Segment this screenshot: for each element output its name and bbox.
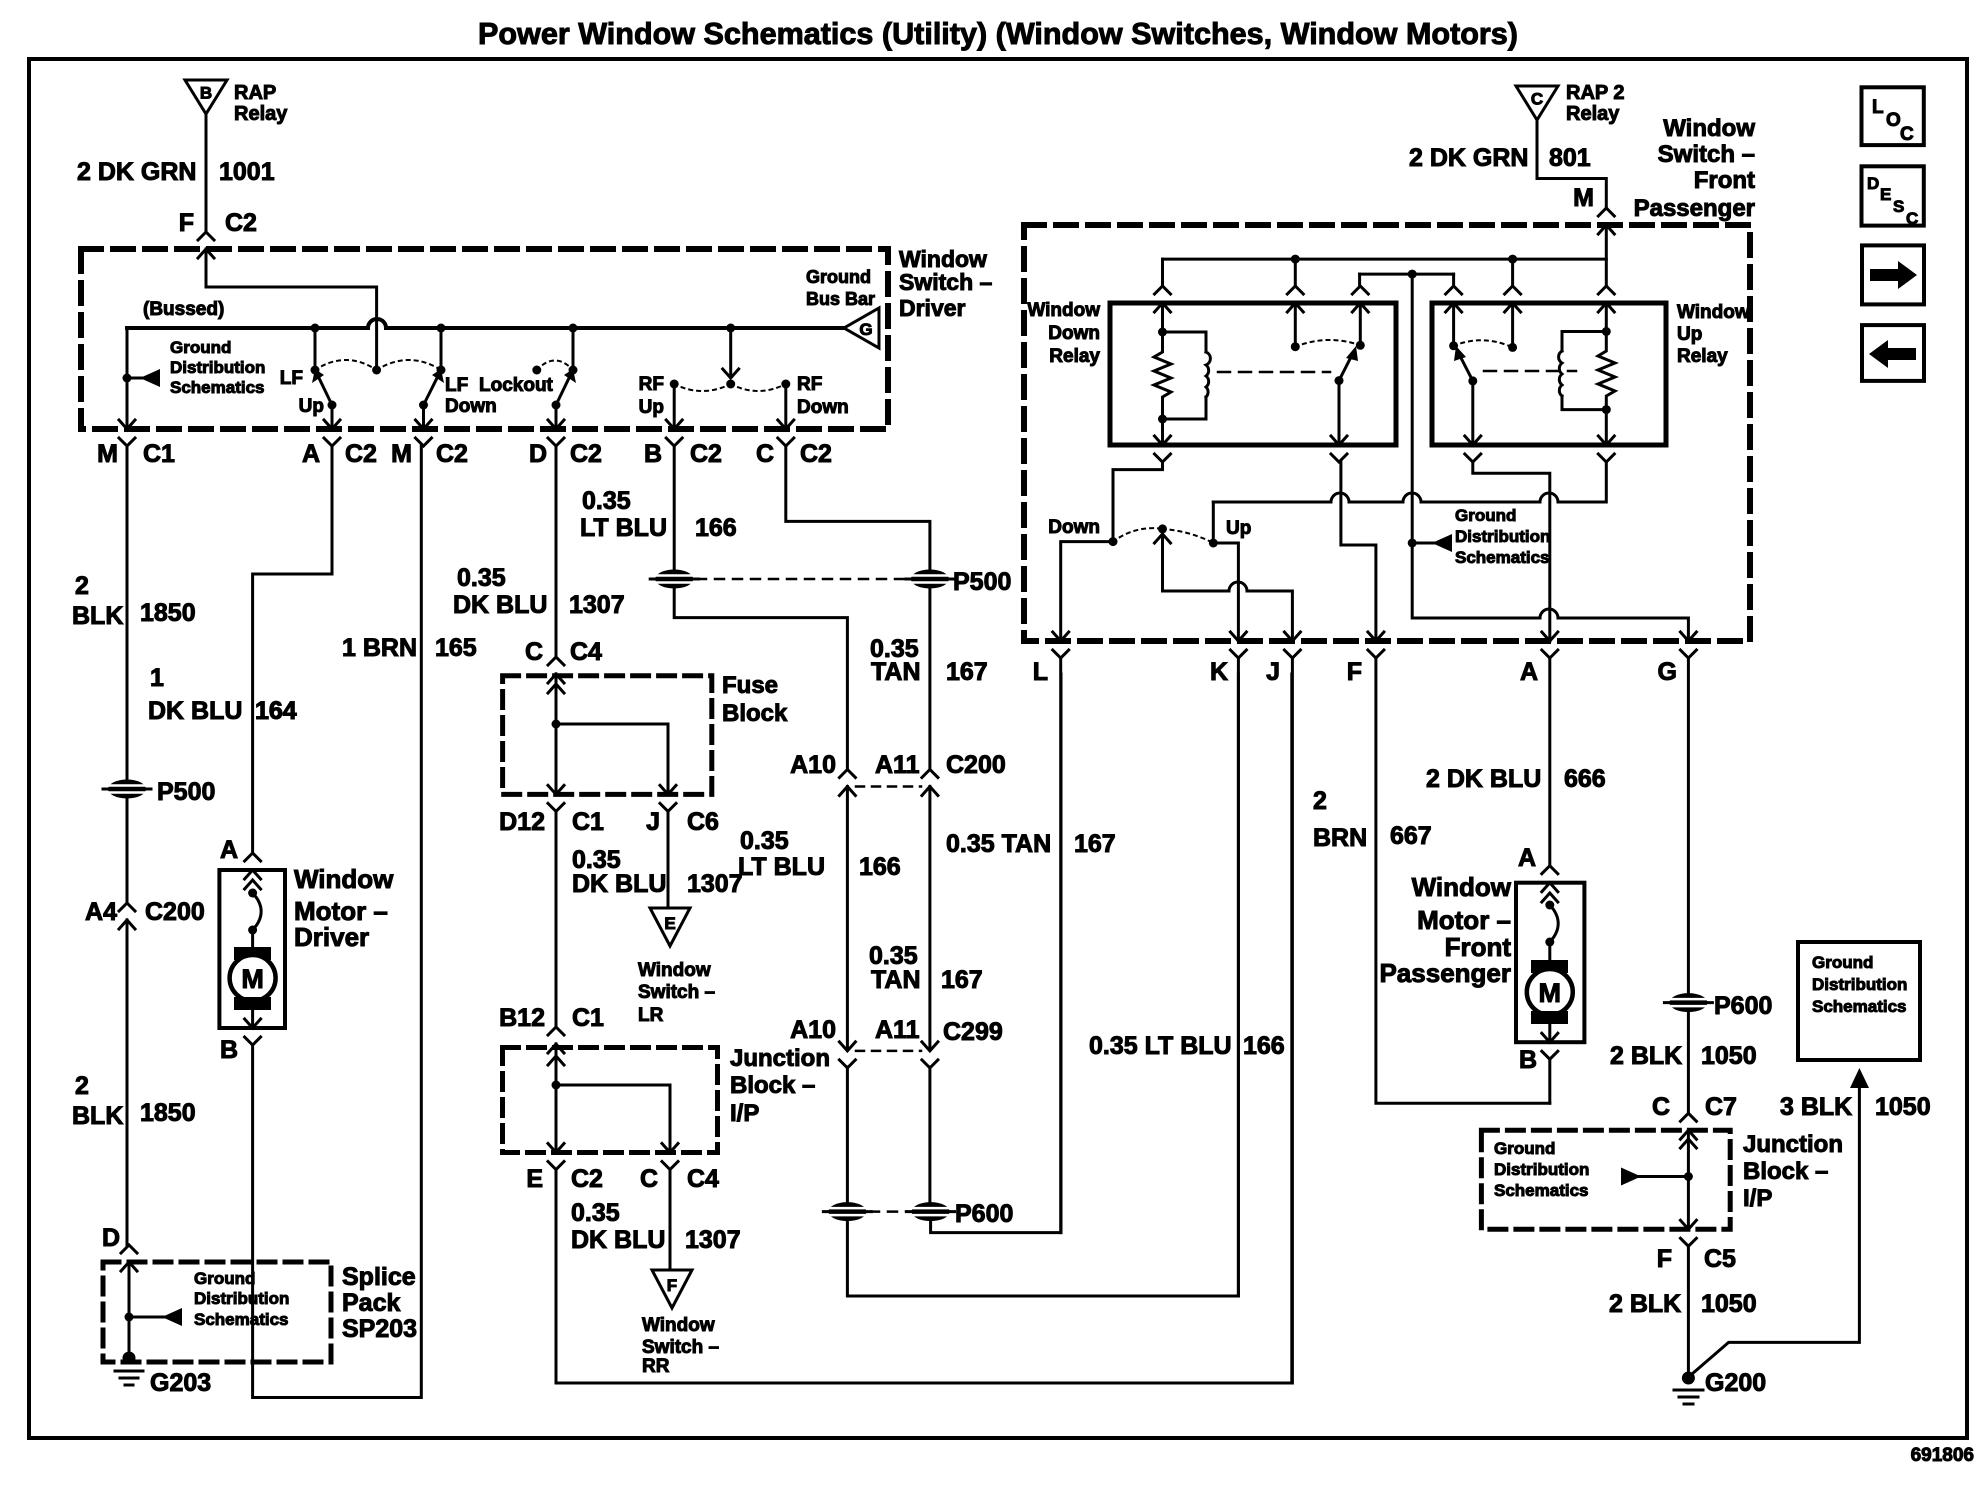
svg-text:2 DK BLU: 2 DK BLU <box>1426 765 1541 793</box>
svg-text:I/P: I/P <box>1743 1185 1772 1212</box>
wire C C2 to P500 right <box>786 446 930 569</box>
connector A11 C299 <box>922 1042 938 1068</box>
contact dot switch NO (up relay) <box>1449 341 1458 350</box>
window up relay box <box>1432 303 1666 445</box>
svg-text:167: 167 <box>946 658 988 686</box>
svg-text:LT BLU: LT BLU <box>738 853 825 881</box>
wire LF up riser <box>314 328 317 366</box>
pass-through grommet P600 (G wire) <box>1664 993 1712 1012</box>
svg-text:M: M <box>241 964 264 994</box>
connector K <box>1230 632 1246 658</box>
connector down relay coil <box>1155 286 1171 312</box>
ground symbol G200 <box>1674 1390 1703 1404</box>
svg-text:A: A <box>1520 658 1538 686</box>
connector up relay switch common <box>1505 286 1521 312</box>
ground bus bar triangle G <box>844 308 879 348</box>
wire GDS arrow stub (passenger) <box>1412 542 1436 545</box>
svg-text:Lockout: Lockout <box>479 375 554 396</box>
svg-text:C4: C4 <box>687 1165 719 1193</box>
wire to motor brush (passenger) <box>1548 942 1551 960</box>
pass-through grommet P600 (left) <box>823 1202 871 1221</box>
junction dot coil top (down relay) <box>1158 328 1167 337</box>
svg-text:LF: LF <box>445 375 468 396</box>
svg-text:Schematics: Schematics <box>1812 997 1907 1016</box>
connector B at driver motor <box>245 1019 261 1045</box>
arrowhead motor passenger top <box>1542 893 1558 902</box>
pivot dot LF down lower <box>419 401 428 410</box>
wire up relay switch to A exit <box>1473 462 1550 641</box>
connector E C2 at junction block <box>548 1144 564 1170</box>
svg-text:691806: 691806 <box>1911 1445 1974 1466</box>
svg-text:Schematics: Schematics <box>194 1310 289 1329</box>
ground dot G203 <box>123 1352 136 1365</box>
svg-text:O: O <box>1886 110 1901 131</box>
svg-text:C2: C2 <box>571 1165 603 1193</box>
svg-text:801: 801 <box>1549 144 1591 172</box>
svg-text:166: 166 <box>1243 1032 1285 1060</box>
svg-text:Schematics: Schematics <box>1494 1181 1589 1200</box>
bus bar wire with hop over center riser <box>127 319 844 328</box>
connector C C2 at driver box <box>778 420 794 446</box>
pivot dot LF up lower <box>328 401 337 410</box>
connector down relay switch NO <box>1352 286 1368 312</box>
wire RAP relay B to connector F C2 <box>205 114 208 232</box>
svg-text:C: C <box>1652 1093 1670 1121</box>
svg-text:J: J <box>1266 658 1280 686</box>
connector M C2 at driver box <box>416 420 432 446</box>
arrowhead 3 BLK to GDS box <box>1850 1068 1869 1088</box>
connector down relay switch common <box>1287 286 1303 312</box>
arrowhead junction right entry <box>1680 1139 1696 1148</box>
svg-text:1850: 1850 <box>140 599 196 627</box>
svg-text:2 DK GRN: 2 DK GRN <box>1409 144 1528 172</box>
svg-text:165: 165 <box>435 634 477 662</box>
svg-text:G203: G203 <box>150 1369 211 1397</box>
connector C C7 <box>1680 1113 1696 1139</box>
svg-text:D12: D12 <box>499 808 545 836</box>
junction dot LF riser on bus <box>311 324 320 333</box>
motor passenger symbol M circle <box>1527 969 1573 1015</box>
wire Up contact riser to coil rail <box>1212 502 1215 543</box>
resistor element up relay <box>1598 332 1615 410</box>
svg-text:C6: C6 <box>687 808 719 836</box>
junction dot rail upper right <box>1508 255 1517 264</box>
wire Up contact to K exit <box>1213 543 1238 641</box>
svg-text:2 DK GRN: 2 DK GRN <box>77 158 196 186</box>
arrowhead motor driver top <box>245 880 261 889</box>
svg-text:P500: P500 <box>953 568 1011 596</box>
pass-through grommet P600 (right) <box>907 1202 955 1221</box>
svg-text:Down: Down <box>1048 517 1100 538</box>
junction dot coil bottom (up relay) <box>1602 405 1611 414</box>
dashed link P600 <box>870 1210 908 1213</box>
contact dot LF up <box>311 366 320 375</box>
svg-text:Window: Window <box>1027 300 1100 321</box>
wire A11 down to C299 <box>928 787 931 1051</box>
svg-text:SP203: SP203 <box>342 1315 417 1343</box>
svg-text:1307: 1307 <box>569 591 625 619</box>
svg-text:C: C <box>640 1165 658 1193</box>
svg-text:BRN: BRN <box>1313 824 1367 852</box>
wire M C1 down to P500 <box>126 446 129 779</box>
forward arrow icon <box>1870 261 1917 289</box>
wire A C2 jog to motor column <box>253 446 332 853</box>
svg-text:M: M <box>1539 978 1562 1008</box>
wire E C2 bottom run to J <box>556 674 1292 1383</box>
dotted arc RF center to down <box>731 384 786 391</box>
svg-text:1050: 1050 <box>1701 1290 1757 1318</box>
contact dot lockout <box>569 366 578 375</box>
connector up relay switch NO <box>1446 286 1462 312</box>
wire coil riser down relay <box>1161 303 1164 332</box>
svg-text:Window: Window <box>294 864 394 894</box>
junction dot coil bottom (down relay) <box>1158 415 1167 424</box>
svg-text:RAP 2: RAP 2 <box>1566 82 1625 104</box>
svg-text:Schematics: Schematics <box>1455 548 1550 567</box>
svg-text:Schematics: Schematics <box>170 378 265 397</box>
pass-through grommet P500 (right pair left) <box>650 570 698 589</box>
pass-through grommet P500 (right pair right) <box>906 570 954 589</box>
wire splice to GDS arrow <box>129 1316 178 1319</box>
arrowhead LF down blade <box>432 369 444 383</box>
connector down relay coil out <box>1155 436 1171 462</box>
wire inside junction block <box>555 1044 558 1152</box>
ground dot G200 <box>1682 1372 1695 1385</box>
svg-text:Bus Bar: Bus Bar <box>806 289 875 309</box>
relay reference triangle C (RAP 2 Relay) <box>1516 86 1558 120</box>
wire inside junction right <box>1687 1130 1690 1229</box>
svg-text:0.35: 0.35 <box>457 564 506 592</box>
junction dot RF riser on bus <box>726 324 735 333</box>
switch blade LF down <box>424 378 438 405</box>
svg-text:LT BLU: LT BLU <box>580 514 667 542</box>
ground distribution schematics solid box <box>1798 942 1920 1060</box>
contact dot switch common (up relay) <box>1508 343 1517 352</box>
wire feed rail upper <box>1163 258 1607 261</box>
relay reference triangle B (RAP Relay) <box>185 80 227 114</box>
arrow ground distribution schematics (driver box) <box>140 369 160 387</box>
brush dot motor passenger top <box>1545 901 1554 910</box>
svg-text:RF: RF <box>639 374 664 395</box>
wire switch NO riser (down relay) <box>1359 303 1362 341</box>
svg-text:DK BLU: DK BLU <box>572 870 666 898</box>
junction dot fuse block <box>552 720 561 729</box>
svg-text:Ground: Ground <box>194 1269 255 1288</box>
wire L down to P600 corner <box>1059 658 1062 1233</box>
svg-text:166: 166 <box>859 853 901 881</box>
wire RF center riser <box>729 328 732 374</box>
wire C C4 to switch RR <box>669 1169 672 1270</box>
connector F (passenger) <box>1368 632 1384 658</box>
wire from F C2 down and over to bus hop <box>206 249 377 320</box>
connector G (passenger) <box>1680 632 1696 658</box>
motor driver symbol M circle <box>230 955 276 1001</box>
junction block IP dashed box (center) <box>503 1048 718 1153</box>
wire RF down to edge <box>784 384 787 428</box>
connector D12 C1 at fuse block <box>548 785 564 811</box>
relay reference triangle E (Window Switch LR) <box>650 908 690 946</box>
connector A at driver motor <box>245 853 261 879</box>
wire up relay coil rail <box>1213 462 1606 502</box>
svg-text:RAP: RAP <box>234 82 276 104</box>
svg-text:D: D <box>1867 174 1879 193</box>
connector M at passenger box <box>1598 208 1614 234</box>
wire coil bottom to box edge (up relay) <box>1605 410 1608 445</box>
svg-text:0.35 LT BLU: 0.35 LT BLU <box>1089 1032 1232 1060</box>
arrow ground distribution schematics (splice pack) <box>162 1308 182 1326</box>
junction block IP dashed box (right) <box>1481 1130 1730 1229</box>
forward arrow icon box <box>1862 245 1924 304</box>
dotted arc down relay contacts <box>1295 340 1360 347</box>
wire Down contact to L exit <box>1061 542 1113 641</box>
window motor driver box <box>219 870 285 1028</box>
relay reference triangle F (Window Switch RR) <box>652 1270 692 1308</box>
dashed link P500 <box>697 578 908 581</box>
svg-text:C2: C2 <box>800 440 832 468</box>
connector L <box>1053 632 1069 658</box>
svg-text:B12: B12 <box>499 1004 545 1032</box>
svg-text:1001: 1001 <box>219 158 275 186</box>
connector C C4 at fuse block <box>548 657 564 683</box>
svg-text:1: 1 <box>150 664 164 692</box>
svg-text:2: 2 <box>75 1072 89 1100</box>
pivot dot lockout lower <box>552 401 561 410</box>
svg-text:Up: Up <box>639 397 664 418</box>
svg-text:Down: Down <box>1048 323 1100 344</box>
svg-text:L: L <box>1033 658 1048 686</box>
svg-text:A: A <box>302 440 320 468</box>
svg-text:Distribution: Distribution <box>194 1289 289 1308</box>
junction dot lockout riser on bus <box>569 324 578 333</box>
dotted arc LF up to center <box>315 360 377 370</box>
svg-text:Passenger: Passenger <box>1634 195 1755 222</box>
connector F C5 <box>1680 1220 1696 1246</box>
svg-text:2 BLK: 2 BLK <box>1610 1042 1682 1070</box>
squiggle brush lead motor passenger <box>1550 905 1558 942</box>
wire lockout to edge <box>555 405 558 428</box>
svg-text:Fuse: Fuse <box>722 672 778 699</box>
svg-text:F: F <box>667 1276 677 1295</box>
svg-text:Switch –: Switch – <box>638 982 715 1003</box>
svg-text:1850: 1850 <box>140 1099 196 1127</box>
svg-text:Driver: Driver <box>899 295 966 321</box>
svg-text:TAN: TAN <box>871 966 921 994</box>
window motor front passenger box <box>1516 883 1584 1042</box>
svg-text:DK BLU: DK BLU <box>148 697 242 725</box>
svg-text:Window: Window <box>642 1315 715 1336</box>
svg-text:Motor –: Motor – <box>1417 905 1511 935</box>
wire A4 down to splice pack D <box>126 920 129 1245</box>
svg-text:Ground: Ground <box>1812 953 1873 972</box>
window down relay box <box>1110 303 1396 445</box>
svg-text:0.35: 0.35 <box>740 827 789 855</box>
wire G down to P600 <box>1687 658 1690 992</box>
svg-text:C1: C1 <box>143 440 175 468</box>
fuse block dashed box <box>503 676 712 795</box>
svg-text:K: K <box>1210 658 1228 686</box>
wire F C5 to ground G200 <box>1687 1246 1690 1372</box>
wire A11 C299 to P600 right <box>928 1067 931 1202</box>
connector B C2 at driver box <box>666 420 682 446</box>
svg-text:A: A <box>1518 844 1536 872</box>
wire fuse block branch <box>556 724 668 794</box>
svg-text:Window: Window <box>638 960 711 981</box>
svg-text:C: C <box>1900 124 1914 145</box>
svg-text:A10: A10 <box>790 751 836 779</box>
wire P500 right down to A11 <box>928 589 931 770</box>
pivot dot center (passenger switch) <box>1158 524 1167 533</box>
wire rail lower left leg <box>1358 274 1361 286</box>
svg-text:C2: C2 <box>690 440 722 468</box>
wire A down to motor <box>1548 658 1551 866</box>
wire F to motor B run <box>1376 658 1550 1103</box>
svg-text:M: M <box>97 440 118 468</box>
svg-text:F: F <box>179 209 194 237</box>
wire P600 right to L riser <box>931 674 1061 1233</box>
wire RF up to edge <box>673 384 676 428</box>
connector A4 C200 <box>119 903 135 929</box>
dotted arc center to Up <box>1163 529 1214 543</box>
dashed link A10 A11 C200 <box>856 785 921 788</box>
wire blade to box bottom (down relay) <box>1338 381 1341 445</box>
motor passenger lower brush bar <box>1531 1011 1568 1024</box>
coil loop up relay <box>1562 332 1606 410</box>
svg-text:C299: C299 <box>943 1018 1003 1046</box>
svg-text:C200: C200 <box>145 898 205 926</box>
dotted arc RF up to center <box>674 384 731 391</box>
svg-text:Driver: Driver <box>294 922 369 952</box>
junction dot rail lower <box>1408 270 1417 279</box>
wire rail to down relay coil <box>1161 259 1164 286</box>
connector J C6 at fuse block <box>660 785 676 811</box>
wire lockout riser <box>572 328 575 366</box>
svg-text:0.35: 0.35 <box>582 487 631 515</box>
svg-text:B: B <box>644 440 662 468</box>
wire G200 to 3 BLK riser <box>1692 1086 1859 1374</box>
arrowhead down relay blade <box>1346 346 1358 361</box>
svg-text:D: D <box>529 440 547 468</box>
connector M C1 at driver box <box>119 420 135 446</box>
wire J down to bottom run <box>1291 658 1294 1383</box>
contact dot Down <box>1109 537 1118 546</box>
pivot dot LF center <box>372 366 381 375</box>
svg-text:3 BLK: 3 BLK <box>1780 1093 1852 1121</box>
pass-through grommet P500 (left) <box>103 780 151 799</box>
svg-text:0.35: 0.35 <box>571 1199 620 1227</box>
wire P500 left to A10 <box>674 589 847 770</box>
wire rail lower right leg <box>1452 274 1455 286</box>
wire to motor brush <box>251 930 254 947</box>
connector F C2 at driver switch box <box>198 232 214 258</box>
svg-text:Ground: Ground <box>1455 506 1516 525</box>
svg-text:C1: C1 <box>572 808 604 836</box>
svg-text:BLK: BLK <box>72 602 123 630</box>
mechanical link dashed (down relay) <box>1218 371 1330 374</box>
svg-text:Relay: Relay <box>1049 346 1100 367</box>
arrowhead center pivot <box>1155 534 1171 543</box>
svg-text:L: L <box>1872 97 1884 118</box>
svg-text:(Bussed): (Bussed) <box>143 299 224 320</box>
svg-text:Switch –: Switch – <box>899 269 993 295</box>
junction dot junction right <box>1684 1172 1693 1181</box>
arrow ground distribution schematics (junction right) <box>1621 1168 1641 1186</box>
svg-text:Junction: Junction <box>730 1045 830 1072</box>
svg-text:1307: 1307 <box>685 1226 741 1254</box>
wire LF down to edge <box>422 405 425 428</box>
wire center riser to pivot <box>375 320 378 366</box>
coil loop down relay <box>1163 332 1207 419</box>
wire inside fuse block <box>555 674 558 794</box>
svg-text:C2: C2 <box>225 209 257 237</box>
wire M into box <box>1605 225 1608 286</box>
switch blade down relay <box>1339 355 1352 381</box>
motor passenger upper brush bar <box>1531 960 1568 973</box>
wire P500 to connector A4 C200 <box>126 799 129 903</box>
svg-text:Up: Up <box>1226 518 1251 539</box>
svg-text:Up: Up <box>299 396 324 417</box>
dashed link A10 A11 C299 <box>856 1050 921 1053</box>
wire rail to down relay switch <box>1294 259 1297 286</box>
svg-text:2 BLK: 2 BLK <box>1609 1290 1681 1318</box>
svg-text:Block: Block <box>722 700 788 727</box>
svg-text:Ground: Ground <box>1494 1139 1555 1158</box>
dotted arc lockout <box>537 361 573 371</box>
wire RAP 2 to connector M <box>1537 120 1606 208</box>
svg-text:Relay: Relay <box>1566 103 1620 125</box>
svg-text:TAN: TAN <box>871 658 921 686</box>
connector down relay switch out <box>1331 436 1347 462</box>
pivot dot up relay blade <box>1468 376 1477 385</box>
svg-text:G: G <box>1658 658 1677 686</box>
wire P600 to C C7 <box>1687 1013 1690 1113</box>
svg-text:F: F <box>1347 658 1362 686</box>
arrowhead RF center riser <box>723 369 739 378</box>
connector C C4 at junction block <box>662 1144 678 1170</box>
window switch driver dashed box <box>81 249 888 429</box>
arrowhead LF up blade <box>312 369 324 383</box>
open contact dot lockout <box>532 366 541 375</box>
wire motor driver B to BRN column <box>253 446 422 1398</box>
wire P600 left to K riser <box>847 674 1238 1296</box>
wire center pivot to J exit <box>1163 536 1293 641</box>
svg-text:Front: Front <box>1694 167 1755 194</box>
contact dot RF down <box>781 380 790 389</box>
wire coil bottom to box edge <box>1161 419 1164 445</box>
switch blade LF up <box>319 378 332 405</box>
wire J C6 to switch LR <box>667 811 670 908</box>
connector B at passenger motor <box>1542 1033 1558 1059</box>
back arrow icon box <box>1862 325 1924 381</box>
wire D C2 down to C C4 <box>555 446 558 657</box>
svg-text:Block –: Block – <box>730 1072 815 1099</box>
contact dot RF up <box>670 380 679 389</box>
svg-text:A11: A11 <box>875 751 920 779</box>
svg-text:P600: P600 <box>955 1200 1013 1228</box>
wire D12 to B12 <box>555 811 558 1027</box>
svg-text:C: C <box>756 440 774 468</box>
contact dot switch common (down relay) <box>1291 342 1300 351</box>
svg-text:2: 2 <box>75 572 89 600</box>
junction dot junction block <box>552 1081 561 1090</box>
dotted arc Down to center <box>1113 528 1163 541</box>
connector A11 C200 <box>922 770 938 796</box>
svg-text:1307: 1307 <box>687 870 743 898</box>
svg-text:M: M <box>391 440 412 468</box>
svg-text:Passenger: Passenger <box>1379 958 1511 988</box>
wire LF up to edge <box>331 405 334 428</box>
svg-text:P500: P500 <box>157 778 215 806</box>
connector A (passenger) <box>1542 632 1558 658</box>
